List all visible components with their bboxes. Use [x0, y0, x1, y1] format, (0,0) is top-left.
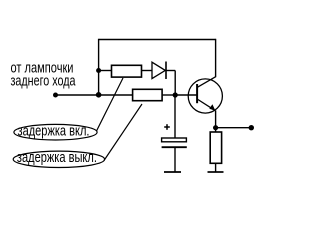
svg-text:задержка выкл.: задержка выкл. — [17, 149, 97, 166]
wire top horizontal — [99, 39, 216, 41]
callout ellipse delay-off — [13, 151, 104, 167]
wire corner down to base node — [174, 71, 176, 96]
wire emitter vertical — [215, 110, 217, 127]
wire R3 bottom — [215, 164, 217, 172]
node output terminal — [249, 125, 254, 130]
wire R1 tap — [99, 70, 111, 72]
wire input horizontal — [56, 94, 133, 96]
wire capacitor bottom — [174, 147, 176, 172]
ground bar capacitor — [164, 171, 181, 173]
resistor R1 — [112, 65, 142, 77]
wire R1 to diode — [142, 70, 152, 72]
capacitor C1 — [162, 138, 187, 147]
node junction left — [96, 92, 102, 98]
node junction R1 tap — [96, 68, 101, 73]
diode VD1 — [152, 62, 166, 80]
wire collector vertical — [215, 39, 217, 77]
svg-text:заднего хода: заднего хода — [11, 73, 76, 90]
wire R3 top — [215, 128, 217, 132]
capacitor C1 plus sign — [164, 124, 170, 130]
resistor R3 — [210, 132, 221, 163]
wire capacitor top — [174, 95, 176, 138]
node base junction — [173, 92, 178, 97]
wire diode to corner — [166, 70, 175, 72]
node emitter junction — [213, 125, 218, 130]
leader line delay-on to R1 — [97, 78, 124, 131]
leader line delay-off to R2 — [104, 104, 142, 161]
wire emitter to output — [216, 127, 252, 129]
transistor VT1 — [188, 77, 222, 113]
ground bar R3 — [208, 171, 224, 173]
svg-text:задержка вкл.: задержка вкл. — [18, 123, 90, 140]
callout ellipse delay-on — [14, 124, 97, 140]
node input terminal — [53, 93, 58, 98]
wire R2 to base node — [163, 94, 176, 96]
wire left vertical — [98, 39, 100, 95]
wire base — [175, 94, 197, 96]
resistor R2 — [133, 89, 163, 100]
